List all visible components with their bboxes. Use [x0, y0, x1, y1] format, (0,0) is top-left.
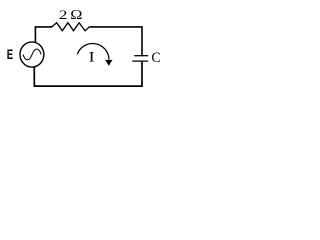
wire top-left segment [35, 27, 52, 42]
current direction arc [77, 44, 109, 60]
svg-text:I: I [89, 48, 95, 65]
AC source E (circle) [20, 42, 44, 67]
capacitor label C [152, 50, 161, 67]
wire bottom-right segment [34, 62, 142, 87]
svg-text:C: C [152, 50, 161, 67]
AC source sine wave [23, 49, 41, 60]
current arrowhead [105, 60, 112, 66]
wire top-right segment [89, 27, 142, 56]
svg-text:Ω: Ω [70, 8, 82, 22]
wire bottom-left stub [33, 67, 35, 87]
source label E [7, 46, 13, 62]
current label I [89, 48, 95, 65]
capacitor C top plate [134, 55, 148, 57]
svg-text:2: 2 [59, 8, 68, 22]
capacitor C bottom plate [132, 60, 148, 62]
svg-text:E: E [7, 46, 13, 62]
resistor value label 2 Ohm [59, 8, 68, 22]
resistor R (zigzag) [52, 23, 89, 31]
